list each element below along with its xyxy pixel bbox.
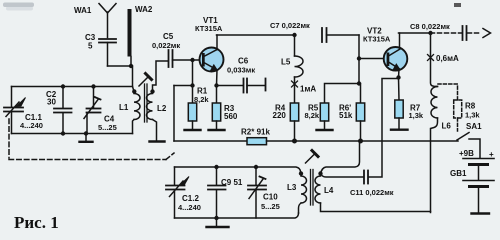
resistor R2: [247, 138, 267, 145]
node R6 bottom: [358, 139, 363, 144]
svg-text:8,2k: 8,2k: [305, 111, 320, 120]
battery GB1: [463, 159, 494, 214]
svg-text:1,3k: 1,3k: [465, 111, 480, 120]
svg-text:SA1: SA1: [466, 122, 482, 131]
transistor VT1: [200, 35, 224, 86]
ground under L2: [150, 140, 165, 142]
switch SA1: [457, 133, 480, 159]
resistor R4: [290, 103, 298, 141]
node C5/base junction: [190, 58, 194, 62]
label C1.1 4...240: [20, 113, 43, 130]
svg-text:C10: C10: [263, 193, 278, 202]
capacitor C8 output dashed: [431, 26, 481, 40]
inductor L1: [132, 89, 140, 133]
svg-text:R8: R8: [465, 102, 476, 111]
node VT2 base: [357, 56, 361, 60]
svg-text:1,3k: 1,3k: [409, 111, 424, 120]
label R8 1,3k: [465, 102, 480, 120]
label C4 5...25: [98, 115, 117, 133]
resistor R6: [356, 84, 364, 142]
svg-text:GB1: GB1: [450, 169, 467, 178]
label VT1 KT315A: [195, 16, 223, 33]
node C4 bottom: [84, 131, 88, 135]
capacitor C4 trimmer: [84, 87, 101, 134]
lower tank top bus: [175, 167, 301, 172]
ground under C4: [80, 134, 93, 142]
svg-text:WA1: WA1: [74, 6, 92, 15]
label C5 0,022mk: [152, 32, 180, 50]
svg-text:C8 0,022мк: C8 0,022мк: [410, 22, 450, 31]
inductor L3: [299, 171, 307, 213]
svg-text:1мА: 1мА: [300, 85, 316, 94]
antenna WA2: [128, 9, 132, 66]
svg-text:L6: L6: [442, 122, 452, 131]
node emitter/R3/C6: [214, 83, 218, 87]
mechanical gang dashed link C1.1-C1.2: [9, 119, 174, 160]
svg-text:C7 0,022мк: C7 0,022мк: [270, 21, 310, 30]
capacitor C6: [217, 79, 266, 93]
wire base to VT2: [359, 58, 386, 60]
node C4 top: [91, 84, 95, 88]
svg-text:51k: 51k: [339, 111, 353, 120]
resistor R8 dashed optional: [438, 84, 462, 131]
node C2 bottom: [61, 131, 65, 135]
svg-text:220: 220: [273, 111, 287, 120]
node antenna junction: [129, 64, 133, 68]
svg-text:C6: C6: [238, 57, 249, 66]
resistor R7: [391, 75, 408, 129]
svg-text:+: +: [489, 150, 494, 159]
label R6 51k: [339, 104, 353, 121]
label C3 5: [85, 33, 96, 51]
svg-text:C1.2: C1.2: [182, 194, 199, 203]
core L1/L2: [145, 84, 148, 122]
capacitor C5: [169, 50, 193, 67]
label C10 5...25: [261, 193, 280, 212]
capacitor C11: [321, 171, 369, 184]
svg-text:+9В: +9В: [459, 149, 474, 158]
label C2 30: [46, 90, 57, 107]
inductor L4: [315, 171, 431, 211]
svg-text:L4: L4: [324, 186, 334, 195]
wire base node to VT1: [193, 59, 205, 61]
capacitor C1.2 variable: [166, 167, 189, 218]
svg-text:Рис. 1: Рис. 1: [14, 213, 59, 232]
label C6 0,033mk: [227, 57, 255, 75]
wire base bias left segment: [174, 85, 193, 87]
node R4 bottom: [292, 139, 297, 144]
label R1 8,2k: [194, 87, 209, 105]
wire collector to L6 with 0,6mA point: [428, 33, 438, 87]
svg-text:0,033мк: 0,033мк: [227, 66, 255, 75]
wire node to R5: [325, 84, 360, 104]
label VT2 KT315A: [363, 27, 391, 44]
lower tank bottom bus: [175, 213, 299, 218]
capacitor C2: [54, 87, 72, 134]
label R3 560: [224, 104, 238, 121]
inductor L6: [431, 87, 438, 213]
node C2 top: [61, 84, 65, 88]
capacitor C7: [322, 28, 359, 42]
svg-text:4...240: 4...240: [178, 203, 201, 212]
measuring point 1mA: [292, 81, 298, 87]
tuning arrow L3/L4 core: [306, 151, 319, 164]
svg-text:L3: L3: [287, 183, 297, 192]
label C1.2 4...240: [178, 194, 201, 212]
resistor R5: [317, 103, 333, 130]
scan smudge top-left: [3, 3, 34, 8]
wire bias rail: [174, 140, 247, 142]
svg-text:0,6мА: 0,6мА: [436, 54, 459, 63]
wire left drop to R2 rail: [173, 86, 175, 142]
svg-text:5...25: 5...25: [98, 123, 117, 132]
resistor R3: [209, 86, 225, 131]
wire C7 to VT2 base: [358, 35, 360, 84]
label R7 1,3k: [409, 104, 424, 121]
core L3/L4: [311, 170, 314, 206]
svg-text:5: 5: [88, 42, 93, 51]
transistor VT2: [384, 33, 408, 78]
wire L2 top to C5: [153, 61, 168, 91]
svg-text:КТ315А: КТ315А: [363, 35, 391, 44]
output arrow: [483, 29, 491, 38]
capacitor C3: [99, 39, 116, 66]
svg-text:L1: L1: [119, 103, 129, 112]
svg-text:0,022мк: 0,022мк: [152, 41, 180, 50]
svg-text:КТ315А: КТ315А: [195, 24, 223, 33]
node R1 top: [190, 83, 194, 87]
wire junction down to L1 top: [131, 66, 134, 92]
svg-text:8,2k: 8,2k: [194, 95, 209, 104]
antenna WA1: [99, 4, 116, 38]
wire base node down: [192, 60, 194, 86]
inductor L2: [146, 89, 156, 140]
scan speck top-right: [454, 3, 461, 7]
wire rail right: [267, 140, 459, 142]
node C9 bottom: [214, 216, 218, 220]
svg-text:560: 560: [224, 112, 238, 121]
svg-text:R2* 91k: R2* 91k: [241, 128, 270, 137]
resistor R1: [185, 86, 201, 131]
node C10 top: [254, 165, 258, 169]
capacitor C1.1 variable: [4, 87, 26, 134]
tuning arrow L1/L2 core: [139, 74, 152, 87]
wire input tank top bus: [12, 86, 133, 88]
svg-text:4...240: 4...240: [20, 121, 43, 130]
svg-text:5...25: 5...25: [261, 202, 280, 211]
wire L4 top to rail: [321, 141, 360, 174]
wire VT2 collector top: [399, 32, 431, 34]
label R5 8,2k: [305, 104, 320, 121]
node R5/R6: [357, 81, 361, 85]
node C9 top: [214, 165, 218, 169]
ground under C9: [207, 218, 229, 227]
svg-text:WA2: WA2: [135, 5, 153, 14]
wire C3 to WA2 junction: [108, 65, 132, 67]
svg-text:L2: L2: [157, 104, 167, 113]
label +9V: [450, 149, 494, 178]
inductor L5: [295, 35, 304, 103]
label R4 220: [273, 104, 287, 121]
wire VT1 collector to C7: [217, 34, 295, 36]
wire VT2 emitter to C11: [369, 79, 399, 178]
capacitor C9: [208, 167, 226, 218]
wire input tank bottom bus: [12, 133, 133, 135]
node C7/L5 junction: [292, 33, 296, 37]
node collector/C8/L6: [428, 31, 432, 35]
capacitor C10 trimmer: [248, 167, 266, 218]
svg-text:C11 0,022мк: C11 0,022мк: [350, 188, 394, 197]
svg-text:L5: L5: [281, 58, 291, 67]
svg-text:C9 51: C9 51: [221, 178, 243, 187]
svg-text:30: 30: [47, 98, 56, 107]
svg-text:C5: C5: [163, 32, 174, 41]
